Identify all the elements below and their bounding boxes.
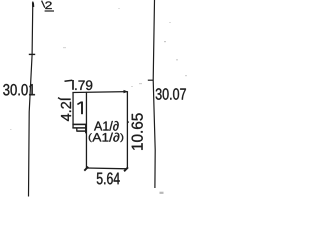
node bump on building right edge xyxy=(127,121,128,123)
node building label (A1/d) in parentheses xyxy=(89,133,123,142)
wire: porch steps left vertical xyxy=(72,124,74,128)
node label 2 xyxy=(45,1,51,9)
node arrowhead at top-right corner xyxy=(124,90,129,93)
node dimension 4.21 digit 1 stem rotated xyxy=(60,98,70,100)
node tick on left boundary xyxy=(29,53,35,55)
node dimension 4.21 digit 1 flag rotated xyxy=(58,98,60,99)
node dimension 30.07 xyxy=(156,88,186,99)
node dimension 10.65 xyxy=(132,113,143,149)
node dimension 1.79 fraction .79 xyxy=(75,80,92,90)
wire: building left edge shared with porch right edge xyxy=(85,92,87,168)
node tick at top of left boundary xyxy=(32,3,34,8)
wire: porch steps line 1 xyxy=(72,127,86,129)
node building label A1/d xyxy=(94,121,119,131)
node dimension 4.21 digits 4.2 xyxy=(61,102,71,121)
node arrow tick at bottom-left corner xyxy=(84,167,88,171)
node label 1 flag xyxy=(77,102,81,105)
node point 2 leader xyxy=(42,1,45,8)
node dimension 5.64 xyxy=(97,172,120,184)
node arrow tick at bottom-right corner xyxy=(124,167,128,171)
node label 1 stem xyxy=(81,102,83,115)
node label 2 underline xyxy=(45,10,54,12)
wire: right boundary line 30.07 xyxy=(153,0,155,188)
node dimension 30.01 xyxy=(3,84,35,95)
wire: left boundary line 30.01 xyxy=(29,2,33,197)
wire: building bottom edge and 5.64 dimension xyxy=(87,167,128,170)
node dimension 1.79 digit 1 stem xyxy=(72,80,74,90)
wire: building top edge and 1.79 dimension line xyxy=(72,91,127,94)
node tick on right boundary xyxy=(148,79,153,81)
wire: porch steps line 2 xyxy=(77,130,87,132)
wire: porch steps inner vertical xyxy=(76,128,78,131)
node dimension 1.79 digit 1 flag xyxy=(65,80,73,81)
wire: building right edge xyxy=(126,91,128,168)
wire: porch rectangle 1 left edge xyxy=(72,93,74,125)
wire: porch rectangle 1 bottom edge xyxy=(72,123,86,125)
wire: porch steps right vertical xyxy=(85,124,87,133)
noise speckles xyxy=(10,8,187,194)
